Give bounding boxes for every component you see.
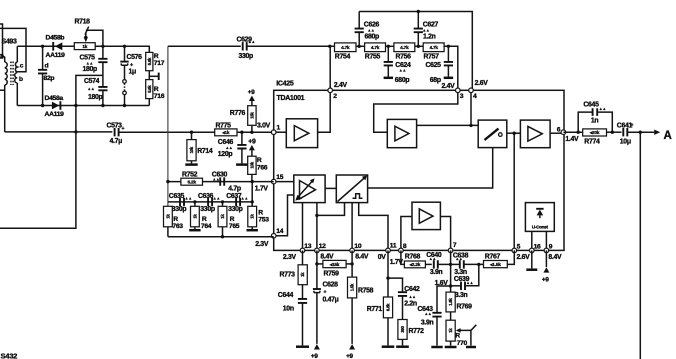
svg-text:C626: C626 [364,21,380,28]
resistor R774 20k [583,129,607,136]
wire C573 to IC pin 1 [119,131,274,133]
svg-text:R752: R752 [182,172,198,179]
svg-text:6.8k: 6.8k [386,303,391,311]
capacitor C630 4.7p [220,177,224,185]
svg-text:▲▲: ▲▲ [241,196,248,200]
resistor R754 4.7k [335,43,357,52]
svg-text:+: + [324,290,327,296]
wire row pin 15 [168,181,274,183]
svg-text:R: R [455,332,460,339]
wire [415,45,423,47]
amplifier block 2 [387,119,416,147]
svg-text:764: 764 [201,223,212,230]
svg-text:716: 716 [154,93,165,100]
pulse shaper output to switch block [368,148,493,188]
svg-text:6: 6 [557,127,561,134]
wire R718 to R717 [95,46,149,52]
pulse shaper leg to pin 10 [351,203,353,251]
svg-text:1μ: 1μ [129,69,137,76]
R718 wiper arrow [85,27,89,39]
node output riser [639,131,642,134]
svg-text:R755: R755 [365,53,381,60]
svg-text:◂20k: ◂20k [589,130,600,135]
amplifier block 1 (pin1 to pin2) [286,119,317,148]
+9 supply arrow [249,96,255,101]
svg-text:+9: +9 [542,276,549,283]
node R776 [250,131,253,134]
wire row pin 14 [168,236,274,238]
U-Const leg to pin 9 [545,231,547,250]
svg-text:◂2.2k: ◂2.2k [409,262,421,267]
svg-text:R: R [154,53,159,60]
wire [425,263,431,265]
resistor R772 [398,320,407,340]
resistor R766 [248,156,256,174]
riser pin 4 [470,90,472,125]
svg-text:C575: C575 [80,55,96,62]
resistor R759 15k [323,260,346,267]
electrolytic capacitor C576 1u [124,46,126,61]
svg-text:16: 16 [534,243,541,250]
svg-text:770: 770 [457,340,468,347]
svg-text:763: 763 [172,223,183,230]
capacitor C635 330p [180,198,184,206]
svg-text:4.7k: 4.7k [429,45,438,50]
resistor R765 [222,202,224,206]
svg-text:120p: 120p [218,151,233,158]
svg-text:5.6k: 5.6k [147,57,152,65]
ground [445,346,457,349]
pin 14 [271,234,276,239]
svg-text:C637: C637 [226,193,242,200]
svg-text:+: + [631,123,634,129]
ground [431,346,442,349]
svg-text:10n: 10n [283,305,294,312]
wire R717 to R716 [148,71,150,80]
pin 12 [315,248,320,253]
capacitor C644 10n [302,285,304,299]
svg-text:7: 7 [453,242,457,249]
wire from left edge to transformer tap [0,28,26,71]
left module shield box edge (cut at image border) [0,24,3,58]
svg-text:2.4V: 2.4V [334,82,348,89]
resistor R767 1.5k [484,261,508,268]
resistor R773 below pin 13 [302,250,304,264]
wire pin15 to attenuator [274,181,294,183]
svg-text:▲▲: ▲▲ [368,29,375,33]
svg-text:R773: R773 [280,271,296,278]
svg-text:12: 12 [319,243,326,250]
svg-text:9: 9 [549,243,553,250]
svg-text:+9: +9 [346,353,353,359]
svg-text:S432: S432 [1,352,18,359]
svg-text:3: 3 [460,93,464,100]
wire pin8 to amp3 input [401,217,412,251]
capacitor C646 120p [241,132,243,144]
svg-text:8.4V: 8.4V [355,253,369,260]
main wire to C629 [168,45,241,47]
connector circles below C576 [123,80,127,84]
attenuator leg to pin 13 [302,203,304,251]
svg-text:C636: C636 [198,193,214,200]
wire R757 to pin 3 [444,46,458,90]
svg-text:▲▲: ▲▲ [599,107,606,111]
svg-text:R776: R776 [230,110,246,117]
svg-text:◂1.5k: ◂1.5k [489,262,501,267]
riser [251,182,253,202]
wire R767 to pin 5 [507,250,514,264]
wire [439,263,451,265]
svg-text:2: 2 [333,93,337,100]
svg-text:C635: C635 [169,193,185,200]
capacitor C638 3.3n [460,260,464,268]
node pin2 riser [328,45,331,48]
wire amp1 out to pin 2 [318,90,331,132]
pin 1 [271,130,276,135]
svg-text:R754: R754 [335,53,351,60]
svg-text:D458b: D458b [46,35,65,42]
svg-text:R772: R772 [409,328,425,335]
svg-text:AA119: AA119 [45,111,65,118]
capacitor C643 3.9n branch [437,286,451,312]
svg-text:+9: +9 [248,89,255,96]
transformer secondary winding c [16,46,18,62]
capacitor C637 330p [236,198,240,206]
svg-text:S493: S493 [2,39,17,46]
U-Const leg to pin 16 [531,231,533,250]
pin 8 [399,248,404,253]
top feedback wire to pin 4 [359,12,472,91]
shield enclosure lines [0,106,76,229]
riser to pin 5 [513,133,515,250]
wire below pin 10 [351,250,353,277]
branch to C642 [388,278,403,292]
svg-text:180p: 180p [83,66,98,73]
U-Const block [525,203,554,232]
svg-text:10: 10 [354,243,361,250]
resistor R771 [383,297,392,318]
node R714 [190,131,193,134]
wire pin 6 to output network [563,131,582,133]
wire [386,45,394,47]
wire to output A [628,131,654,133]
pin 2 [328,88,333,93]
svg-text:8.4V: 8.4V [548,254,562,261]
svg-text:C625: C625 [426,62,442,69]
wire pin14 to attenuator [274,195,294,236]
pin 16 [530,248,535,253]
wire amp2 out to switch [417,124,479,126]
resistor R716 5.6k [146,80,153,99]
wire row C635-C637 [168,201,252,203]
wire amp3 out to pin7 [440,217,450,251]
svg-text:4.7p: 4.7p [228,185,241,192]
capacitor C642 2.2n [398,292,407,296]
capacitor C626 680p riser [358,32,360,46]
svg-text:R769: R769 [457,304,473,311]
svg-text:766: 766 [257,164,268,171]
svg-text:▲▲: ▲▲ [86,62,93,66]
wire below pin 11 [387,250,389,297]
pin 6 [561,130,566,135]
+9 supply below pin 9 [545,250,547,267]
svg-text:R767: R767 [485,254,501,261]
node attenuator/pulse/pin12 [315,214,318,217]
pin 15 [271,179,276,184]
svg-text:▲▲: ▲▲ [399,69,406,73]
svg-text:c: c [20,63,24,70]
potentiometer R770 1k [446,320,455,341]
svg-text:R771: R771 [367,306,383,313]
svg-text:4: 4 [473,93,477,100]
resistor R756 4.7k [394,43,415,52]
resistor R769 1.8k [446,292,455,312]
svg-text:680p: 680p [365,33,380,40]
+9 supply [349,344,355,349]
pin 5 [512,248,517,253]
svg-text:R758: R758 [358,287,374,294]
wire [451,263,460,265]
wire [356,45,365,47]
long vertical wire down right side [639,132,641,359]
pin 4 [469,88,474,93]
capacitor C640 3.9n [434,260,438,268]
svg-text:3.3n: 3.3n [454,269,467,276]
svg-text:0.47μ: 0.47μ [323,296,339,303]
svg-text:4.7k: 4.7k [400,45,409,50]
pin 10 [350,248,355,253]
capacitor C575 180p [102,46,104,58]
output arrow A [654,130,660,135]
wire [42,46,44,69]
resistor R764 [194,202,196,206]
svg-text:C574: C574 [84,78,100,85]
svg-text:390: 390 [400,325,405,332]
capacitor C639 3.3n [466,264,479,285]
capacitor C645 1n parallel branch [578,112,612,132]
ground [466,346,476,349]
wire below pin 7 [450,250,452,292]
svg-text:6.2k: 6.2k [188,179,197,184]
pin 13 [300,248,305,253]
svg-text:R774: R774 [584,139,600,146]
svg-text:5: 5 [517,244,521,251]
svg-text:R759: R759 [324,271,340,278]
svg-text:C576: C576 [127,54,143,61]
svg-text:180p: 180p [88,94,103,101]
pulse shaper block [336,175,367,203]
wire [346,263,352,265]
chassis stub at R717/R716 node [149,75,158,77]
svg-text:1.7V: 1.7V [255,186,269,193]
capacitor C636 330p [208,198,212,206]
wire pin1 to amp1 [274,131,287,133]
svg-text:1.4V: 1.4V [565,136,579,143]
wire [42,73,44,105]
svg-text:C628: C628 [323,281,339,288]
resistor R755 4.7k [365,43,386,52]
transformer core [11,62,13,86]
resistor R768 2.2k [404,261,425,268]
wiper wire to right terminal [86,30,103,46]
svg-text:C573: C573 [107,123,123,130]
wire [451,285,461,287]
svg-text:10μ: 10μ [620,139,631,146]
wire [607,131,622,133]
ground [382,345,395,348]
bottom wire winding b to D458a to R716 [17,105,149,107]
capacitor d 82p [38,70,47,74]
svg-text:R768: R768 [405,254,421,261]
svg-text:1.5k: 1.5k [350,283,355,291]
svg-text:R: R [258,209,263,216]
svg-text:◂15k: ◂15k [329,262,340,267]
svg-text:4.7μ: 4.7μ [110,138,123,145]
svg-text:765: 765 [229,223,240,230]
op-amp IC425 TDA1001 outline [274,90,564,250]
svg-text:11: 11 [390,243,397,250]
wire pin 8 to R768 [401,250,405,264]
attenuator leg to pin 12 [316,203,318,251]
svg-text:3.3n: 3.3n [455,292,468,299]
wire attenuator to pulse shaper [325,187,336,189]
svg-text:▲▲: ▲▲ [409,295,416,299]
svg-text:82p: 82p [44,75,55,82]
svg-text:U-Const: U-Const [532,225,549,230]
svg-text:4.7k: 4.7k [341,45,350,50]
svg-text:330p: 330p [239,53,254,60]
wire C575/C574 node down [76,75,103,105]
svg-text:AA119: AA119 [46,52,66,59]
diode D458a AA119 [52,102,59,110]
resistor R757 4.7k [423,43,444,52]
svg-text:1n: 1n [591,117,599,124]
svg-text:1: 1 [277,125,281,132]
wire below pin 12 [316,250,318,288]
svg-text:1.2n: 1.2n [423,33,436,40]
potentiometer R718 1k [74,43,95,50]
svg-text:2.6V: 2.6V [517,254,531,261]
riser to pin 2 [329,46,331,90]
svg-text:4.7k: 4.7k [371,45,380,50]
svg-text:680p: 680p [395,77,410,84]
switch block [478,120,507,148]
node diode/cap d [41,45,44,48]
svg-text:▲▲: ▲▲ [226,146,233,150]
svg-text:3.9n: 3.9n [430,269,443,276]
svg-text:▲▲: ▲▲ [213,196,220,200]
R770 wiper arrow [456,328,461,333]
svg-text:C645: C645 [583,102,599,109]
electrolytic capacitor C628 0.47u [313,288,321,290]
svg-text:R718: R718 [75,19,91,26]
wire switch out to amp4 [507,132,521,134]
amplifier block 3 [412,202,440,229]
svg-text:▲▲: ▲▲ [88,87,95,91]
svg-text:3.9n: 3.9n [421,319,434,326]
svg-text:▲▲: ▲▲ [213,178,220,182]
wire C638 to R767 [465,263,484,265]
svg-text:C627: C627 [423,21,439,28]
svg-text:2.4V: 2.4V [442,83,456,90]
capacitor C574 180p [102,75,104,86]
svg-text:R714: R714 [197,148,213,155]
resistor R775 1k [215,129,237,136]
resistor R763 [164,206,173,227]
svg-text:+9: +9 [248,138,256,145]
svg-text:2.3V: 2.3V [283,254,297,261]
wire amp4 to pin 6 [550,132,563,134]
svg-text:▲▲: ▲▲ [248,40,255,44]
svg-text:C642: C642 [404,286,420,293]
resistor R776 15k from +9 [251,125,253,132]
svg-text:d: d [45,63,49,70]
svg-text:15k: 15k [249,111,254,118]
svg-text:▲▲: ▲▲ [425,312,432,316]
svg-text:15: 15 [276,174,283,181]
svg-text:b: b [19,76,23,83]
wire C629 to R754 [247,45,334,47]
resistor R752 6.2k [181,178,203,185]
svg-text:C646: C646 [218,139,234,146]
wire [317,263,323,265]
node pin4/amp2/switch [469,124,472,127]
resistor R717 5.6k [146,52,153,70]
transformer S493 primary winding a [0,54,5,62]
pulse shaper leg to pin 11 [359,203,388,251]
pin 9 [544,248,549,253]
svg-text:2.3V: 2.3V [255,241,269,248]
svg-text:5.6k: 5.6k [147,85,152,93]
long wire to C573 [5,131,113,133]
svg-text:8.4V: 8.4V [320,253,334,260]
svg-text:◂1k: ◂1k [221,130,230,135]
ground [396,345,409,348]
svg-text:R756: R756 [396,53,412,60]
wire stub to left edge [0,89,5,91]
attenuator block (variable amplifier) [294,175,325,203]
ground [296,345,309,348]
svg-text:2.6V: 2.6V [475,80,489,87]
svg-text:753: 753 [258,217,269,224]
svg-text:▲▲: ▲▲ [456,257,463,261]
svg-text:3.0V: 3.0V [257,122,271,129]
svg-text:330p: 330p [200,206,215,213]
svg-text:R775: R775 [216,122,232,129]
ground below pin 16 [531,250,533,268]
pin 7 [448,248,453,253]
svg-text:1.8k: 1.8k [448,297,453,305]
svg-text:▲▲: ▲▲ [423,29,430,33]
svg-text:8: 8 [403,243,407,250]
svg-text:1k: 1k [82,44,87,49]
diode D458b AA119 [55,42,62,50]
svg-text:68p: 68p [430,77,441,84]
wire R716 bottom [148,99,150,106]
svg-text:10k: 10k [189,146,194,153]
svg-text:2.2n: 2.2n [404,301,417,308]
resistor R753 [251,202,253,206]
node pin5 riser [513,132,516,135]
svg-text:R757: R757 [424,53,440,60]
resistor R758 [348,277,357,298]
svg-text:D458a: D458a [45,95,64,102]
svg-text:330p: 330p [172,206,187,213]
capacitor C627 1.2n riser [417,32,419,46]
svg-text:13: 13 [304,243,311,250]
svg-text:R: R [154,86,159,93]
pin 11 [386,248,391,253]
